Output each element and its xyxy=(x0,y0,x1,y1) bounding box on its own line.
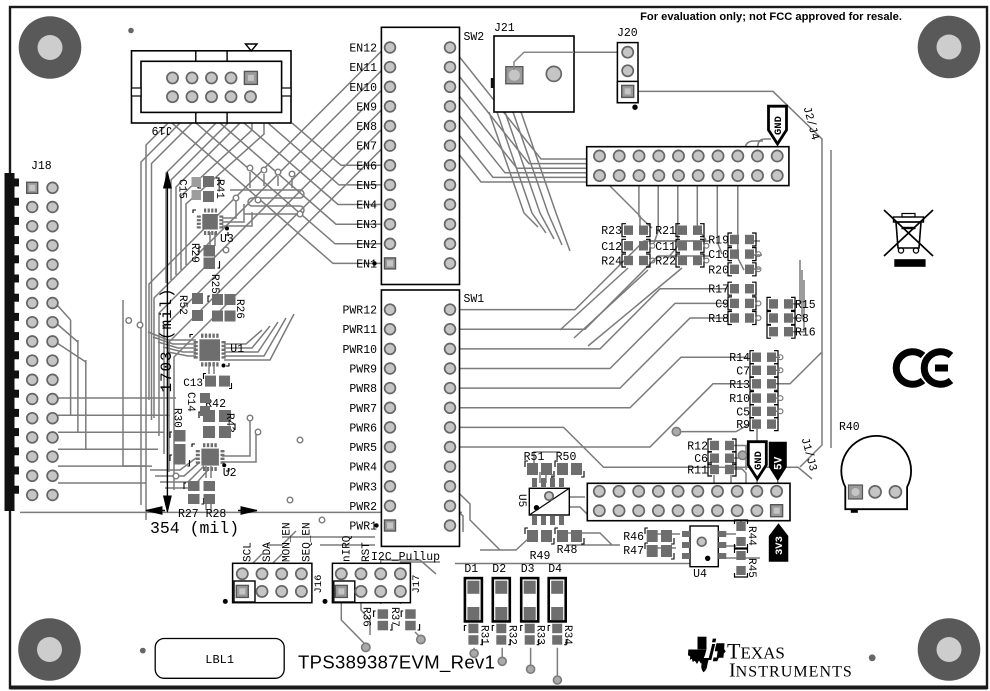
svg-text:R36: R36 xyxy=(360,607,372,627)
svg-text:PWR10: PWR10 xyxy=(342,344,377,357)
svg-text:D2: D2 xyxy=(492,563,506,576)
resistor R43 xyxy=(203,413,235,438)
svg-text:PWR6: PWR6 xyxy=(349,422,377,435)
WEEE crossed-out bin icon xyxy=(884,210,933,256)
svg-text:PWR12: PWR12 xyxy=(342,305,377,318)
wire J21 to J20 xyxy=(574,51,621,53)
resistor R48 xyxy=(555,528,584,557)
Texas Instruments logo xyxy=(688,637,726,673)
EN1 dot xyxy=(372,261,376,265)
wire U2 fan xyxy=(150,458,196,470)
resistor R46 xyxy=(623,528,674,544)
resistor R25 pads xyxy=(208,294,223,322)
svg-text:EN4: EN4 xyxy=(356,200,377,213)
svg-text:R32: R32 xyxy=(505,625,517,645)
svg-text:SDA: SDA xyxy=(262,542,274,562)
svg-text:EN12: EN12 xyxy=(349,43,377,56)
svg-text:C14: C14 xyxy=(184,392,196,412)
svg-text:R27 R28: R27 R28 xyxy=(178,508,226,521)
wire bundle bottom center xyxy=(268,531,375,545)
svg-text:J20: J20 xyxy=(617,27,638,40)
wire bundle left vertical xyxy=(146,123,168,520)
svg-text:R51: R51 xyxy=(524,451,545,464)
svg-text:PWR4: PWR4 xyxy=(349,462,377,475)
svg-text:For evaluation only; not FCC a: For evaluation only; not FCC approved fo… xyxy=(640,11,902,23)
svg-text:GND: GND xyxy=(753,451,765,470)
capacitor C15 xyxy=(176,176,215,202)
resistor R31 xyxy=(464,624,489,646)
svg-text:C15: C15 xyxy=(176,179,188,199)
svg-text:PWR2: PWR2 xyxy=(349,501,377,514)
wire R12 C6 R11 xyxy=(731,446,746,484)
connector J19 xyxy=(132,51,292,123)
wire bundle J21 area to R23/R21 groups xyxy=(489,112,538,227)
svg-text:R30: R30 xyxy=(171,408,183,428)
svg-text:PWR5: PWR5 xyxy=(349,442,377,455)
wire bundle J18 down-right xyxy=(58,414,170,416)
resistors R12 C6 R11 xyxy=(687,439,736,478)
EN labels xyxy=(349,43,377,272)
IC U5 xyxy=(529,478,569,525)
U5 pin1 dot xyxy=(534,505,539,510)
svg-text:R14: R14 xyxy=(729,352,750,365)
wire J20 to right edge xyxy=(634,91,822,467)
svg-text:PWR11: PWR11 xyxy=(342,324,377,337)
svg-text:1703 (mil): 1703 (mil) xyxy=(158,287,176,392)
resistor R44 xyxy=(735,520,758,548)
IC U2 xyxy=(192,443,229,471)
wire U1 fan xyxy=(148,332,196,340)
svg-text:SCL: SCL xyxy=(242,542,254,562)
resistor R33 xyxy=(521,624,546,645)
resistor R32 xyxy=(492,624,517,645)
svg-text:nIRQ: nIRQ xyxy=(341,535,353,562)
svg-text:R21: R21 xyxy=(655,225,676,238)
svg-text:EN10: EN10 xyxy=(349,82,377,95)
resistor R34 xyxy=(548,624,573,646)
resistor R36 xyxy=(360,607,393,630)
fiducial dot bottom-right xyxy=(869,654,876,661)
svg-text:U2: U2 xyxy=(223,467,237,480)
dimension line vertical 1703 xyxy=(164,172,172,512)
capacitor C13 xyxy=(183,374,231,391)
resistors R14 C7 R13 xyxy=(729,351,783,392)
IC U3 xyxy=(193,209,228,236)
resistor R26 xyxy=(225,294,246,322)
svg-text:R10: R10 xyxy=(729,393,750,406)
svg-text:GND: GND xyxy=(773,116,785,135)
resistor R42 pads xyxy=(199,410,231,422)
wire bundle J2/J4 to resistor groups xyxy=(639,176,652,228)
svg-text:R23: R23 xyxy=(601,225,622,238)
svg-text:PWR9: PWR9 xyxy=(349,364,377,377)
svg-text:354 (mil): 354 (mil) xyxy=(150,519,239,538)
C14 pads xyxy=(200,393,210,416)
svg-text:MON_EN: MON_EN xyxy=(282,522,294,562)
connector J1/J3 xyxy=(587,483,790,520)
wire resistor bank stubs right xyxy=(754,241,762,269)
svg-text:J18: J18 xyxy=(31,160,52,173)
5V flag xyxy=(769,442,787,482)
svg-text:D3: D3 xyxy=(521,563,535,576)
GND flag top xyxy=(769,106,787,144)
svg-text:R16: R16 xyxy=(795,327,816,340)
svg-text:D1: D1 xyxy=(464,563,478,576)
LED D3 xyxy=(521,563,539,621)
svg-text:J17: J17 xyxy=(411,575,423,594)
wire U3 fan xyxy=(222,200,252,226)
svg-text:EN6: EN6 xyxy=(356,160,377,173)
J20 pin1 dot xyxy=(632,105,637,110)
resistor R28 xyxy=(204,481,216,504)
connector J17 xyxy=(332,563,410,602)
mounting hole bottom-left xyxy=(18,618,81,681)
svg-text:SW2: SW2 xyxy=(464,31,485,44)
resistor R29 xyxy=(188,243,220,269)
PWR labels xyxy=(342,305,377,534)
svg-text:R17: R17 xyxy=(708,284,729,297)
resistor R49 xyxy=(525,528,554,563)
resistor R45 xyxy=(735,549,758,578)
LED D1 xyxy=(464,563,482,621)
U1 pin1 dot xyxy=(222,364,226,368)
svg-text:R40: R40 xyxy=(839,421,860,434)
svg-text:R31: R31 xyxy=(477,625,489,645)
wire bundle SW2 to J2/J4 xyxy=(452,48,588,160)
svg-text:3V3: 3V3 xyxy=(774,536,786,555)
svg-text:R25: R25 xyxy=(208,274,220,294)
svg-text:U4: U4 xyxy=(693,568,707,581)
svg-text:R37: R37 xyxy=(388,607,400,627)
connector J16 xyxy=(233,563,312,602)
svg-text:R18: R18 xyxy=(708,313,729,326)
svg-text:J16: J16 xyxy=(313,575,325,594)
resistor R41 xyxy=(192,177,226,200)
resistors R23 C12 R24 xyxy=(601,224,655,269)
svg-text:R9: R9 xyxy=(736,419,750,432)
svg-text:5V: 5V xyxy=(774,456,786,470)
svg-text:R12: R12 xyxy=(687,441,708,454)
resistor R50 xyxy=(555,451,584,477)
resistors R17 C9 R18 xyxy=(708,282,761,326)
resistors R15 C8 R16 xyxy=(767,297,816,339)
wire bundle J19 to EN rows xyxy=(292,123,385,165)
connector J20 xyxy=(617,43,638,103)
svg-text:R46: R46 xyxy=(623,531,644,544)
U3 pin1 dot xyxy=(225,227,229,231)
svg-text:SEQ_EN: SEQ_EN xyxy=(301,522,313,562)
resistor R30 xyxy=(170,408,186,456)
svg-text:U5: U5 xyxy=(515,494,527,507)
svg-text:C9: C9 xyxy=(715,298,729,311)
svg-text:J21: J21 xyxy=(494,22,515,35)
switch SW2 xyxy=(381,27,459,284)
svg-text:R34: R34 xyxy=(561,625,573,645)
wire GND stub xyxy=(745,141,763,175)
fiducial dot top-left xyxy=(128,28,134,34)
wire meander near U3 xyxy=(230,190,304,214)
fiducial dot bottom-left xyxy=(140,648,146,654)
3V3 flag xyxy=(769,523,789,561)
connector J21 xyxy=(491,36,574,112)
svg-text:EN5: EN5 xyxy=(356,180,377,193)
resistor R47 xyxy=(623,543,674,559)
resistors R21 C11 R22 xyxy=(655,224,709,269)
svg-text:EN11: EN11 xyxy=(349,62,377,75)
dimension arrows 354 xyxy=(146,507,257,515)
LED D4 xyxy=(548,563,566,621)
svg-text:SW1: SW1 xyxy=(464,293,485,306)
GND flag bottom xyxy=(748,442,766,479)
resistors R19 C10 R20 xyxy=(708,233,761,277)
svg-text:INSTRUMENTS: INSTRUMENTS xyxy=(729,660,853,682)
resistor R27 xyxy=(184,481,204,504)
svg-text:J19: J19 xyxy=(152,123,173,136)
svg-text:R24: R24 xyxy=(601,256,622,269)
svg-text:PWR7: PWR7 xyxy=(349,403,377,416)
resistors R10 C5 R9 xyxy=(729,392,783,433)
U4 pin1 dot xyxy=(705,556,710,561)
svg-text:R47: R47 xyxy=(623,545,644,558)
resistor R37 xyxy=(388,607,420,630)
connector J2/J4 xyxy=(587,147,789,186)
svg-text:R50: R50 xyxy=(556,451,577,464)
mounting hole bottom-right xyxy=(918,618,981,681)
svg-text:R20: R20 xyxy=(708,264,729,277)
svg-text:R45: R45 xyxy=(745,558,757,578)
svg-text:PWR8: PWR8 xyxy=(349,383,377,396)
svg-text:R11: R11 xyxy=(687,465,708,478)
U2 pin1 dot xyxy=(222,463,226,467)
resistor R52 xyxy=(176,293,203,321)
wire diagonals to R23 R21 groups xyxy=(610,186,648,232)
svg-text:C7: C7 xyxy=(736,365,750,378)
PWR1 dot xyxy=(374,523,378,527)
CE mark xyxy=(896,352,951,385)
J17 pin1 dot xyxy=(323,599,328,604)
svg-text:R49: R49 xyxy=(530,550,551,563)
mounting hole top-left xyxy=(19,16,82,79)
svg-text:EN3: EN3 xyxy=(356,219,377,232)
svg-text:C5: C5 xyxy=(736,406,750,419)
svg-text:PWR1: PWR1 xyxy=(349,521,377,534)
svg-text:R22: R22 xyxy=(655,256,676,269)
potentiometer R40 xyxy=(841,436,911,513)
svg-text:D4: D4 xyxy=(548,563,562,576)
svg-text:U1: U1 xyxy=(230,343,244,356)
svg-text:R48: R48 xyxy=(557,544,578,557)
svg-text:R13: R13 xyxy=(729,379,750,392)
svg-text:C12: C12 xyxy=(601,241,622,254)
svg-text:R29: R29 xyxy=(188,243,200,263)
IC U1 xyxy=(190,334,229,367)
svg-text:EN2: EN2 xyxy=(356,239,377,252)
svg-text:R44: R44 xyxy=(745,526,757,546)
WEEE bar xyxy=(894,259,925,267)
switch SW1 xyxy=(381,290,459,546)
svg-text:EN9: EN9 xyxy=(356,101,377,114)
svg-text:PWR3: PWR3 xyxy=(349,481,377,494)
svg-text:I2C_Pullup: I2C_Pullup xyxy=(371,551,440,564)
svg-text:C13: C13 xyxy=(183,378,203,390)
IC U4 xyxy=(682,526,726,567)
label box LBL1 xyxy=(155,639,284,679)
svg-text:TPS389387EVM_Rev1: TPS389387EVM_Rev1 xyxy=(298,652,495,674)
svg-text:R15: R15 xyxy=(795,299,816,312)
svg-text:R33: R33 xyxy=(534,625,546,645)
svg-text:LBL1: LBL1 xyxy=(205,653,234,667)
svg-text:C8: C8 xyxy=(795,313,809,326)
LED D2 xyxy=(492,563,510,621)
svg-text:EN7: EN7 xyxy=(356,141,377,154)
extra pad cluster below R30 xyxy=(170,453,190,466)
wire bundle SW1 to resistor banks xyxy=(452,241,710,310)
resistor R51 xyxy=(524,451,554,477)
svg-text:U3: U3 xyxy=(220,233,234,246)
svg-text:C11: C11 xyxy=(655,241,676,254)
mounting hole top-right xyxy=(918,16,981,79)
svg-text:C10: C10 xyxy=(708,249,729,262)
connector J18 xyxy=(5,173,58,511)
svg-text:R52: R52 xyxy=(176,295,188,315)
svg-text:EN8: EN8 xyxy=(356,121,377,134)
svg-text:R19: R19 xyxy=(708,235,729,248)
J16 pin1 dot xyxy=(223,599,228,604)
J19 polarity triangle xyxy=(246,44,258,51)
